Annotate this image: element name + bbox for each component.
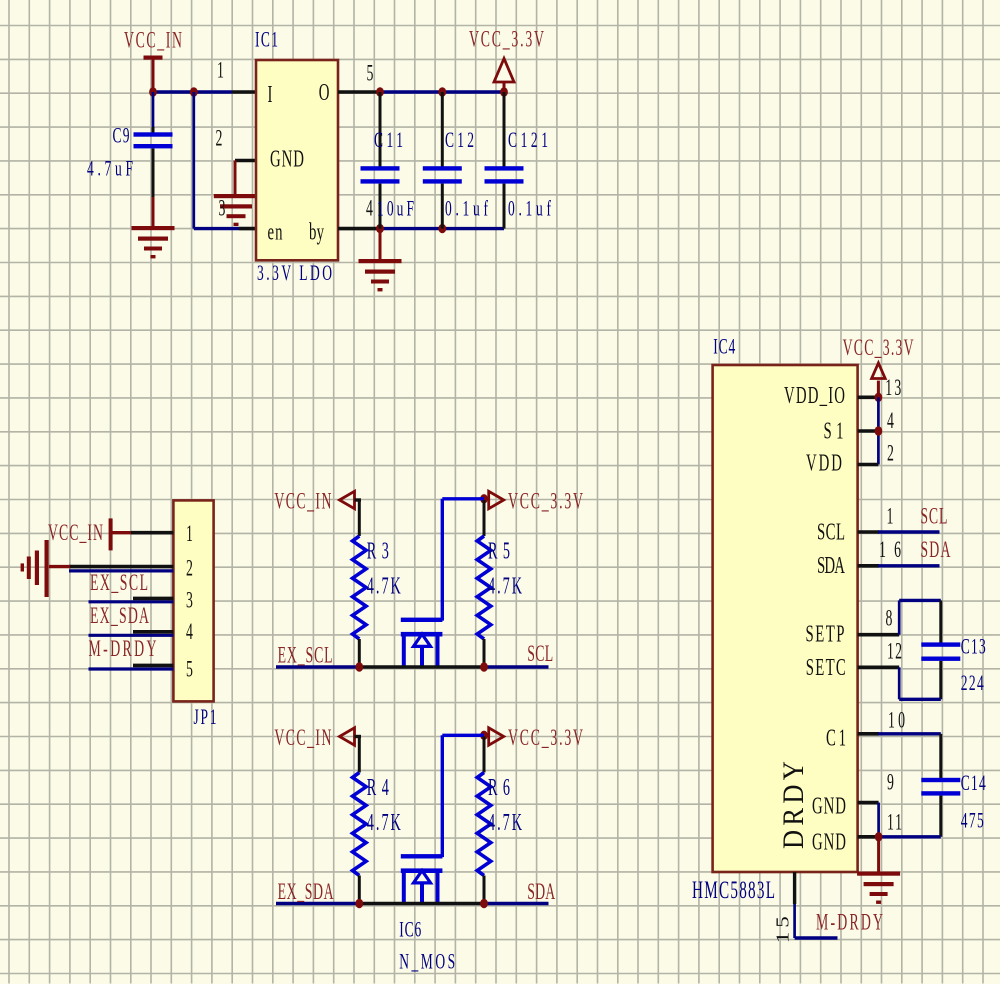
svg-text:SETP: SETP — [806, 621, 845, 648]
svg-text:SDA: SDA — [817, 552, 845, 579]
junction pin11 ground — [875, 832, 883, 841]
wire centre net — [359, 665, 484, 669]
svg-text:8: 8 — [886, 606, 893, 631]
wire gate rail vertical — [441, 735, 444, 857]
wire gate rail horizontal — [442, 497, 484, 500]
svg-text:C11: C11 — [374, 128, 403, 153]
junction bottom rail C12 — [438, 224, 446, 233]
IC1 pin 2 stub — [235, 159, 256, 163]
svg-text:C9: C9 — [113, 123, 130, 148]
wire VCC_IN flag to R — [355, 498, 362, 501]
wire VCC rail at IC4 — [877, 397, 880, 464]
svg-text:2: 2 — [887, 441, 894, 466]
IC4 pin 9 GND — [858, 801, 879, 805]
svg-text:M-DRDY: M-DRDY — [816, 910, 883, 935]
junction at C9 top — [149, 87, 157, 96]
svg-text:EX_SCL: EX_SCL — [278, 643, 333, 668]
svg-text:3: 3 — [186, 588, 193, 613]
IC1 pin 3 stub (en) — [239, 227, 256, 231]
svg-text:IC6: IC6 — [399, 917, 421, 942]
JP1 pin 4 stub — [133, 630, 173, 634]
svg-text:C14: C14 — [961, 770, 986, 795]
svg-text:SDA: SDA — [527, 879, 555, 904]
svg-text:VDD: VDD — [806, 450, 842, 477]
wire SETC loop — [939, 661, 942, 699]
power flag VCC_IN (top) — [144, 56, 163, 60]
junction gate rail — [480, 731, 488, 740]
IC1 pin 5 stub (O) — [338, 90, 380, 94]
svg-text:C13: C13 — [961, 634, 986, 659]
svg-text:4: 4 — [186, 620, 193, 645]
svg-text:IC1: IC1 — [255, 27, 278, 52]
svg-text:M-DRDY: M-DRDY — [89, 636, 157, 661]
svg-text:HMC5883L: HMC5883L — [692, 875, 775, 904]
ground below output rail — [379, 229, 382, 259]
JP1 pin 1 stub — [131, 531, 173, 535]
power flag VCC_IN (cell) — [340, 491, 355, 508]
junction pin13 — [875, 393, 883, 402]
power flag VCC_IN (cell) — [340, 728, 355, 745]
svg-text:475: 475 — [961, 808, 984, 833]
junction pin4 — [875, 426, 883, 435]
svg-text:5: 5 — [367, 61, 374, 86]
wire VCC_IN flag to R — [355, 735, 362, 738]
JP1 pin 2 stub — [69, 565, 173, 569]
ground at IC1 pin 2 — [234, 161, 237, 195]
svg-text:JP1: JP1 — [194, 704, 217, 729]
wire output rail — [379, 90, 504, 93]
svg-text:GND: GND — [270, 146, 304, 173]
ground (rotated) at JP1 pin 2 — [49, 565, 70, 568]
wire at JP1 pin 2 — [69, 569, 173, 572]
svg-text:11: 11 — [887, 810, 902, 835]
wire bottom rail — [379, 227, 504, 230]
svg-text:by: by — [309, 219, 325, 246]
svg-text:GND: GND — [812, 829, 846, 856]
power flag VCC_3.3V (cell) — [489, 491, 504, 508]
IC4 pin 15 DRDY — [793, 872, 796, 904]
wire SETP loop — [898, 600, 901, 634]
svg-text:I: I — [268, 81, 273, 108]
svg-text:224: 224 — [961, 671, 984, 696]
capacitor C12 — [441, 92, 444, 167]
svg-text:VDD_IO: VDD_IO — [784, 382, 845, 409]
IC4 pin 2 VDD — [858, 463, 879, 467]
svg-text:1: 1 — [887, 504, 894, 529]
wire EX_SCL at JP1 pin 3 — [89, 600, 174, 603]
svg-text:VCC_IN: VCC_IN — [274, 725, 331, 750]
junction C11 top — [376, 87, 384, 96]
svg-text:5: 5 — [186, 657, 193, 682]
transistor N-MOS — [401, 854, 443, 858]
IC4 pin 12 SETC — [858, 665, 900, 669]
svg-text:SCL: SCL — [920, 504, 947, 529]
wire en-branch vertical — [192, 92, 195, 229]
junction right resistor — [480, 662, 488, 671]
svg-text:4.7K: 4.7K — [367, 811, 401, 836]
capacitor C121 — [503, 92, 506, 167]
power flag VCC_3.3V (top) — [494, 59, 514, 83]
svg-text:4.7K: 4.7K — [488, 574, 522, 599]
junction C12 top — [438, 87, 446, 96]
svg-text:12: 12 — [887, 639, 902, 664]
wire right net — [484, 902, 549, 905]
wire left net — [276, 665, 359, 668]
svg-text:9: 9 — [887, 770, 894, 795]
magnetometer IC4 box — [713, 365, 858, 872]
svg-text:3: 3 — [219, 196, 226, 221]
IC4 pin 10 C1 — [858, 732, 879, 736]
junction bottom rail C11 — [376, 224, 384, 233]
IC4 pin 16 SDA — [858, 564, 879, 568]
svg-text:VCC_IN: VCC_IN — [124, 28, 182, 53]
svg-text:SCL: SCL — [527, 642, 553, 667]
svg-text:VCC_IN: VCC_IN — [48, 521, 103, 546]
svg-text:GND: GND — [812, 793, 846, 820]
IC4 pin 4 S1 — [858, 429, 879, 433]
wire VCC_IN to IC1 pin1 — [151, 90, 232, 93]
wire gate rail vertical — [441, 499, 444, 621]
svg-text:EX_SDA: EX_SDA — [90, 603, 149, 628]
wire gate rail horizontal — [442, 734, 484, 737]
ground at IC4 — [877, 837, 880, 872]
capacitor C11 — [379, 92, 382, 167]
junction gate rail — [480, 494, 488, 503]
svg-text:4: 4 — [887, 408, 894, 433]
svg-text:EX_SDA: EX_SDA — [278, 879, 334, 904]
svg-text:IC4: IC4 — [713, 334, 735, 359]
power flag VCC_IN at JP1 pin 1 — [109, 518, 113, 550]
power flag VCC_3.3V (cell) — [489, 728, 504, 745]
svg-text:SCL: SCL — [817, 519, 845, 546]
svg-text:2: 2 — [186, 556, 193, 581]
resistor R right 4.7K — [483, 500, 486, 536]
svg-text:O: O — [319, 79, 330, 106]
resistor R left 4.7K — [353, 773, 367, 876]
JP1 pin 3 stub — [133, 597, 173, 601]
junction left resistor — [355, 899, 363, 908]
IC4 pin 8 SETP — [858, 633, 900, 637]
svg-text:2: 2 — [216, 126, 223, 151]
wire pin11 to C14 — [879, 835, 941, 838]
resistor R right 4.7K — [483, 737, 486, 773]
junction right resistor — [480, 899, 488, 908]
wire left net — [276, 902, 359, 905]
IC1 pin 1 stub — [232, 90, 256, 94]
IC4 pin 11 GND — [858, 835, 879, 839]
wire EX_SDA at JP1 pin 4 — [89, 634, 174, 637]
IC4 pin 1 SCL — [858, 530, 879, 534]
wire right net — [484, 665, 549, 668]
svg-text:SETC: SETC — [806, 654, 846, 681]
wire pin9 to pin11 — [877, 803, 880, 837]
svg-text:1: 1 — [186, 521, 193, 546]
svg-text:VCC_IN: VCC_IN — [274, 489, 331, 514]
svg-text:4: 4 — [366, 196, 373, 221]
junction VCC_3.3V / C121 — [500, 87, 508, 96]
JP1 pin 5 stub — [133, 664, 173, 668]
resistor R left 4.7K — [353, 536, 367, 639]
svg-text:4.7K: 4.7K — [488, 811, 522, 836]
capacitor C14 — [939, 734, 942, 778]
svg-text:4.7K: 4.7K — [367, 574, 401, 599]
op-amp-style regulator IC1 box — [256, 60, 338, 260]
svg-text:VCC_3.3V: VCC_3.3V — [843, 336, 914, 361]
svg-text:SDA: SDA — [920, 538, 950, 563]
capacitor C13 — [921, 642, 960, 646]
svg-text:en: en — [268, 219, 283, 246]
junction at en-branch — [190, 87, 198, 96]
capacitor C9 — [152, 92, 155, 127]
svg-text:N_MOS: N_MOS — [399, 949, 455, 974]
transistor N-MOS — [401, 618, 443, 622]
ground below C9 — [152, 197, 155, 226]
IC1 pin 4 stub (by) — [338, 227, 380, 231]
svg-text:C12: C12 — [445, 128, 474, 153]
connector JP1 box — [173, 500, 213, 701]
power flag VCC_3.3V at IC4 — [872, 363, 886, 379]
wire en-branch horizontal — [194, 227, 239, 230]
junction left resistor — [355, 662, 363, 671]
wire centre net — [359, 902, 484, 906]
IC4 pin 13 VDD_IO — [858, 395, 879, 399]
svg-text:1: 1 — [217, 58, 224, 83]
wire M-DRDY at JP1 pin 5 — [89, 667, 174, 670]
